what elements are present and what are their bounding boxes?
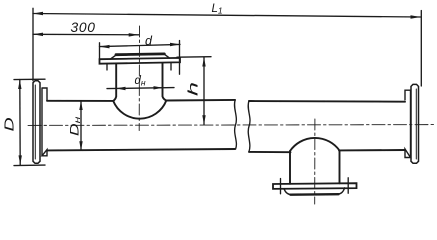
nozzle N1 top wall right — [163, 63, 167, 100]
arrow dn left — [116, 87, 126, 90]
nozzle N1 dome (head seen through pipe) — [113, 101, 166, 119]
dimension D extension bottom — [14, 164, 45, 167]
arrow d left — [100, 45, 110, 49]
centerline main pipe axis — [28, 124, 435, 127]
dimension D line — [19, 80, 21, 165]
svg-text:D: D — [2, 117, 17, 131]
centerline bottom branch axis — [314, 119, 316, 204]
dimension 300 line — [33, 33, 139, 36]
arrow d right — [170, 43, 180, 47]
svg-text:dн: dн — [135, 75, 146, 88]
arrow L1 right — [411, 15, 421, 19]
flange F2 right plate — [411, 84, 419, 163]
flange F1 raised face inner line — [34, 85, 36, 159]
wire pipe top line left segment — [47, 100, 235, 101]
arrow Dn top — [79, 101, 82, 110]
arrow 300 left — [33, 33, 43, 37]
branch N2 bottom wall left — [289, 151, 291, 184]
dimension h extension — [177, 56, 211, 59]
dimension L1 extension line left — [32, 8, 34, 80]
branch N2 dome crown — [290, 138, 340, 151]
dimension L1 extension line right — [420, 11, 422, 87]
svg-text:h: h — [186, 82, 201, 96]
arrow 300 right — [129, 33, 139, 37]
flange F3 raised face top edge thick — [116, 53, 164, 57]
wire pipe bottom line left segment — [47, 149, 235, 150]
arrow h bottom — [202, 115, 205, 124]
break line left — [234, 100, 236, 149]
flange F4 raised face — [284, 188, 345, 195]
arrow h top — [202, 57, 205, 66]
flange F3 raised face — [111, 54, 170, 59]
flange F4 bottom plate — [273, 183, 357, 189]
wire pipe top line right segment — [249, 100, 405, 103]
flange F3 tick right below plate — [170, 63, 172, 71]
branch N2 bottom wall right — [339, 151, 341, 184]
flange F4 tick right — [347, 178, 349, 193]
svg-text:d: d — [145, 34, 153, 48]
flange F3 tick left below plate — [106, 64, 108, 70]
dimension dn line — [107, 88, 174, 89]
arrow dn right — [154, 86, 164, 89]
flange F4 tick left — [280, 179, 282, 194]
svg-text:300: 300 — [71, 20, 96, 35]
arrow Dn bottom — [79, 141, 82, 150]
arrow D bottom — [19, 155, 22, 164]
flange F1 left plate — [33, 81, 40, 164]
nozzle N1 top wall left — [113, 64, 116, 101]
svg-text:L1: L1 — [212, 3, 223, 16]
flange F4 raised face bottom edge thick — [291, 193, 339, 196]
flange F2 collar — [405, 90, 411, 157]
arrow D top — [18, 80, 21, 89]
dimension d line — [100, 44, 181, 46]
dimension d extension left — [99, 43, 101, 59]
arrow L1 left — [33, 12, 43, 16]
wire pipe bottom line right segment — [249, 150, 405, 152]
flange F2 raised face inner line — [415, 89, 417, 159]
flange F3 top plate — [100, 58, 181, 64]
dimension d extension right — [179, 41, 181, 75]
dimension h line — [203, 57, 205, 124]
dimension D extension top — [14, 78, 45, 80]
centerline top nozzle axis — [138, 26, 140, 131]
dimension Dn line — [80, 101, 82, 150]
flange F1 collar — [42, 88, 47, 156]
dimension L1 line — [33, 14, 421, 18]
break line right — [248, 101, 250, 152]
